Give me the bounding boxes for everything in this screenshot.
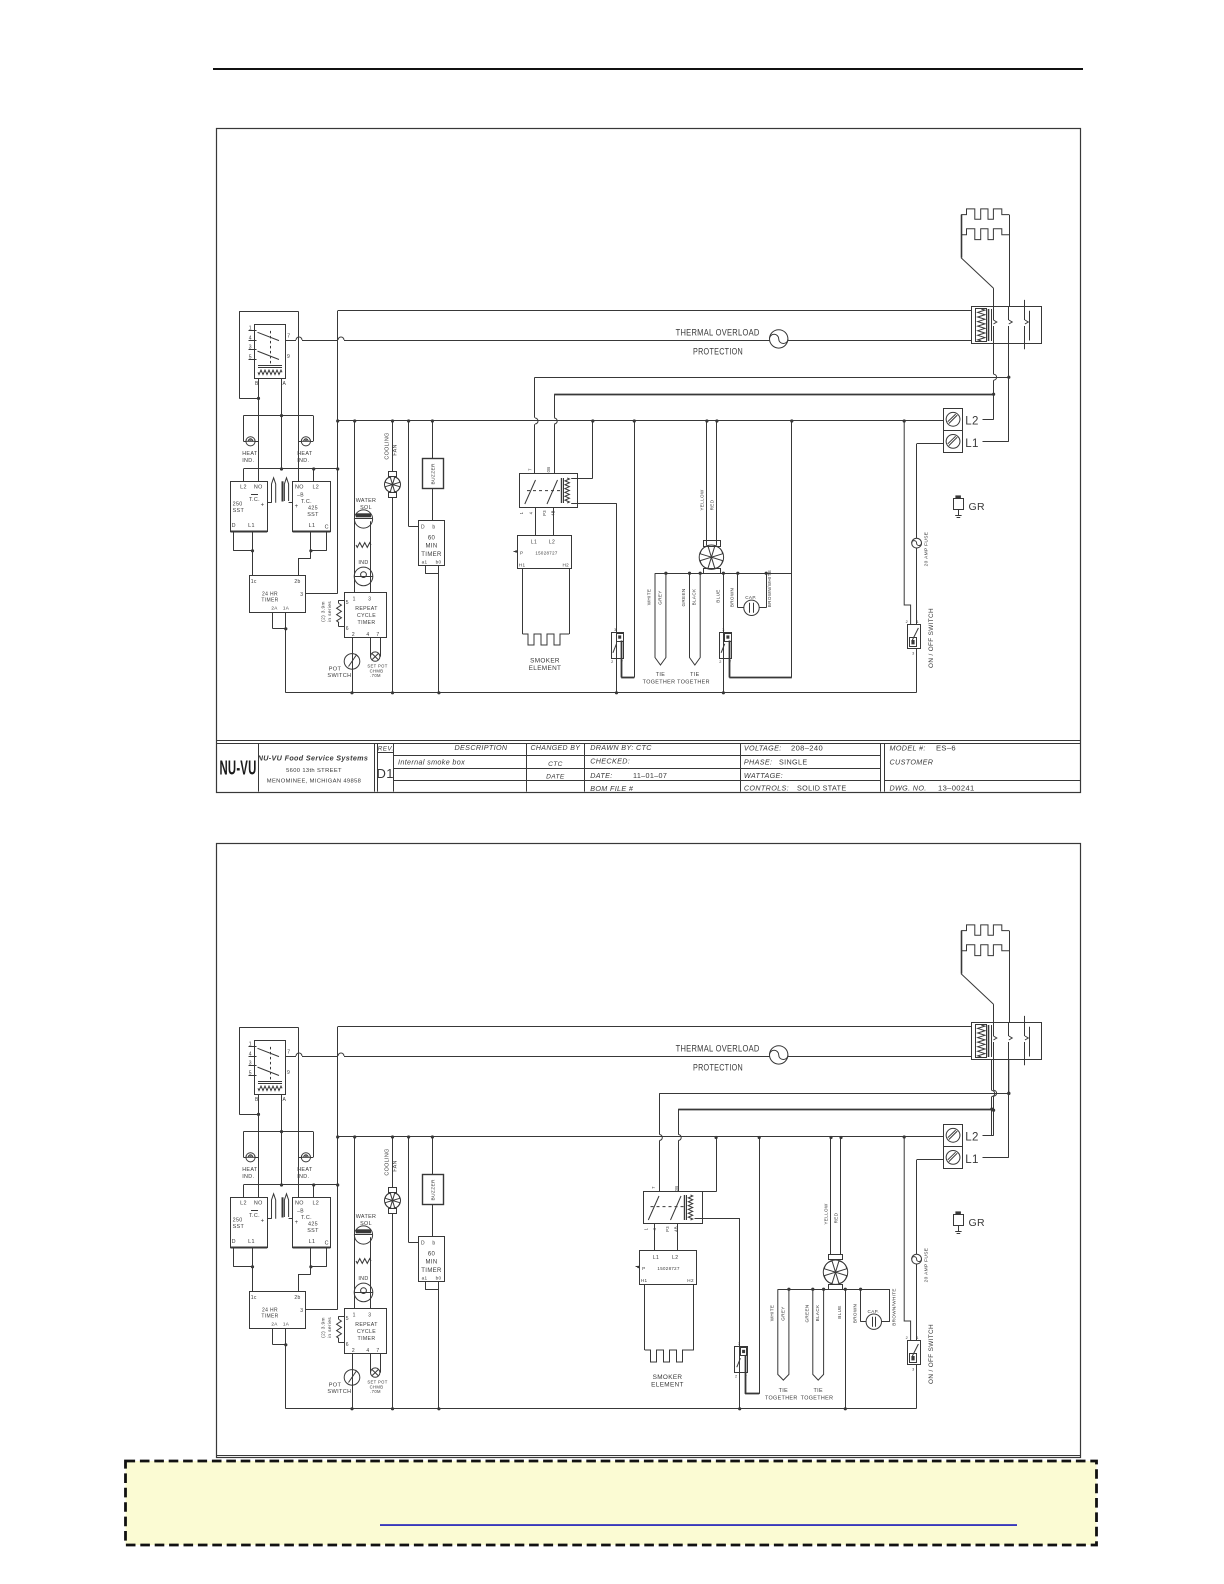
control board 15028727 — [640, 1251, 697, 1285]
on/off switch S2 — [908, 1341, 921, 1365]
resistor R3 — [356, 543, 371, 548]
ground GR — [955, 495, 961, 498]
spade terminal lugs — [272, 1194, 276, 1219]
resistor R1 (2) 3.9m in series — [339, 600, 345, 602]
wire: riser to top rail — [337, 1027, 339, 1310]
thermal overload device F1 — [770, 1046, 788, 1064]
buzzer BZ1 — [432, 421, 434, 459]
repeat cycle timer T2 — [345, 1309, 387, 1354]
diagram frame 1 — [217, 129, 1081, 793]
wire: L2 to contactor — [993, 344, 995, 374]
wire: thermostat outputs — [233, 532, 235, 551]
wire: fan feeds — [830, 1138, 832, 1255]
wire: L1 to contactor — [1008, 1060, 1010, 1158]
wire: harness breakout — [778, 1289, 890, 1291]
wire: solenoid branch — [354, 1137, 356, 1309]
heating element E1 — [961, 925, 1009, 935]
wire: top rail — [338, 1026, 972, 1028]
bottom rail — [286, 1408, 916, 1410]
pot switch S1 — [352, 1354, 354, 1409]
wire flag WHITE/GREY tie — [778, 1289, 789, 1380]
terminal L1 — [944, 431, 963, 453]
main rail — [338, 420, 944, 422]
wire: thermostat outputs — [233, 1248, 235, 1267]
wire: contact feed B — [678, 1109, 992, 1111]
wire: interlock to rail — [759, 1138, 761, 1394]
title block — [217, 740, 1081, 742]
wire: lamp loop feed — [243, 1131, 313, 1133]
top rule — [213, 68, 1083, 70]
wire: L1 to contactor — [1008, 344, 1010, 442]
main rail — [338, 1136, 944, 1138]
circulating fan M2 — [704, 541, 721, 547]
wire: L2 feed to thermostats — [243, 468, 337, 470]
contactor K2 — [972, 1023, 1042, 1060]
hyperlink rule — [380, 1524, 1017, 1526]
wire: coil to interlock — [571, 503, 616, 505]
resistor R1 (2) 3.9m in series — [339, 1316, 345, 1318]
smoker relay K3 — [644, 1192, 703, 1224]
terminal L2 — [944, 409, 963, 431]
wire: coil to rail — [716, 1138, 718, 1192]
wire: switch feed — [904, 421, 910, 624]
interlock switch S3 — [735, 1347, 748, 1373]
thermostat TC1 250 SST — [231, 1198, 268, 1248]
bottom rail — [286, 692, 916, 694]
wire: L2 to contactor — [993, 1060, 995, 1090]
60 MIN timer T3 — [408, 421, 410, 527]
wire: interlock to rail — [634, 421, 636, 678]
indicator lamp DS2 HEAT IND. — [301, 1153, 310, 1162]
wire: coil to rail — [592, 421, 594, 478]
fuse F2 20 AMP — [917, 443, 944, 445]
wire flag GREEN/BLACK tie — [813, 1289, 824, 1380]
thermostat TC2 425 SST — [293, 1198, 331, 1248]
wire: relay to board — [654, 1223, 656, 1251]
wire flag GREEN/BLACK tie — [690, 573, 701, 665]
smoker relay K3 — [520, 474, 578, 508]
control relay K1 with transformer — [239, 311, 298, 313]
wire: relay to board — [535, 507, 537, 535]
interlock switch S3 — [612, 633, 624, 659]
control relay K1 with transformer — [239, 1027, 298, 1029]
wire: solenoid branch — [354, 421, 356, 593]
heating element E1 — [961, 209, 1009, 219]
smoker element E2 — [522, 569, 524, 635]
60 MIN timer T3 — [408, 1137, 410, 1243]
fuse F2 20 AMP — [917, 1159, 944, 1161]
set pot trimmer R2 — [370, 1354, 372, 1373]
wire: riser to top rail — [337, 311, 339, 594]
diagram frame 2 — [217, 844, 1081, 1458]
24 HR timer T1 — [250, 576, 306, 613]
wire: contact feed A — [535, 377, 1009, 379]
wire: contactor to relay B — [991, 1060, 993, 1091]
wire: thermal overload line — [286, 340, 297, 342]
note box — [126, 1461, 1097, 1545]
wire: coil to interlock — [695, 1218, 740, 1220]
contactor K2 — [972, 307, 1042, 344]
spade terminal lugs — [272, 478, 276, 503]
on/off switch S2 — [908, 625, 921, 649]
indicator lamp DS1 HEAT IND. — [246, 437, 255, 446]
repeat cycle timer T2 — [345, 593, 387, 638]
terminal L2 — [944, 1125, 963, 1147]
wire: harness breakout — [655, 573, 792, 575]
resistor R3 — [356, 1259, 371, 1264]
wire: contact feed B — [554, 394, 993, 396]
buzzer BZ1 — [432, 1137, 434, 1175]
thermostat TC1 250 SST — [231, 482, 268, 532]
indicator lamp DS1 HEAT IND. — [246, 1153, 255, 1162]
ground GR — [955, 1211, 961, 1214]
wire: contact feed A — [659, 1093, 1009, 1095]
interlock switch S4 — [720, 633, 732, 659]
thermal overload device F1 — [770, 330, 788, 348]
wire BROWN/WHITE — [791, 421, 793, 678]
wire: contactor to relay A — [1008, 1060, 1010, 1094]
control board 15028727 — [518, 536, 572, 569]
indicator lamp DS2 HEAT IND. — [301, 437, 310, 446]
wire: switch feed — [904, 1137, 910, 1340]
wire: L2 feed to thermostats — [243, 1184, 337, 1186]
smoker element E2 — [644, 1284, 646, 1350]
wire: thermal overload line — [286, 1056, 297, 1058]
circulating fan M2 — [829, 1255, 843, 1260]
wire: lamp loop feed — [243, 415, 313, 417]
thermostat TC2 425 SST — [293, 482, 331, 532]
wire flag WHITE/GREY tie — [655, 573, 666, 665]
terminal L1 — [944, 1147, 963, 1169]
pot switch S1 — [352, 638, 354, 693]
24 HR timer T1 — [250, 1292, 306, 1329]
wire: fan feeds — [706, 421, 708, 545]
wire: top rail — [338, 310, 972, 312]
set pot trimmer R2 — [370, 638, 372, 657]
